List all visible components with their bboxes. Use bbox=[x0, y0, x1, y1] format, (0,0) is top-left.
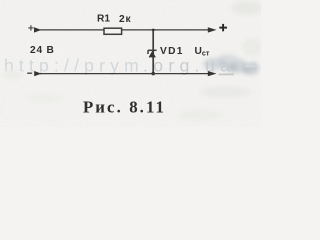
arrow output bottom-right bbox=[208, 71, 217, 76]
svg-text:R1: R1 bbox=[97, 14, 110, 25]
minus sign left input terminal bbox=[27, 72, 32, 74]
wire top right segment bbox=[122, 29, 209, 31]
arrow input bottom-left bbox=[34, 71, 41, 76]
svg-text:24 В: 24 В bbox=[30, 45, 55, 56]
wire bottom bbox=[40, 73, 209, 75]
scanned page background bbox=[0, 0, 261, 127]
film grain overlay bbox=[0, 0, 261, 127]
svg-text:http://prym: http://prym bbox=[4, 56, 144, 76]
svg-text:.org.ua: .org.ua bbox=[143, 56, 235, 76]
watermark blur blobs around .ua bbox=[203, 54, 259, 75]
svg-text:2к: 2к bbox=[119, 14, 131, 25]
svg-text:Рис. 8.11: Рис. 8.11 bbox=[83, 97, 166, 116]
wire top left segment bbox=[40, 29, 104, 31]
watermark tail mark bbox=[245, 65, 257, 68]
zener diode VD1 bbox=[148, 50, 157, 57]
minus sign right output terminal (faint) bbox=[219, 73, 235, 75]
watermark http://prym.org.ua bbox=[4, 56, 235, 76]
resistor R1 bbox=[104, 28, 122, 34]
plus sign right output terminal bbox=[219, 24, 227, 31]
arrow input top-left bbox=[34, 27, 42, 32]
arrow output top-right bbox=[208, 27, 217, 32]
svg-text:VD1: VD1 bbox=[160, 46, 184, 57]
wire vertical branch bbox=[152, 30, 154, 74]
scan noise smudges (background texture) bbox=[4, 1, 263, 121]
node top junction bbox=[152, 29, 155, 32]
svg-text:Uст: Uст bbox=[195, 46, 210, 57]
node bottom junction bbox=[151, 72, 155, 76]
plus sign left input terminal bbox=[28, 25, 33, 30]
